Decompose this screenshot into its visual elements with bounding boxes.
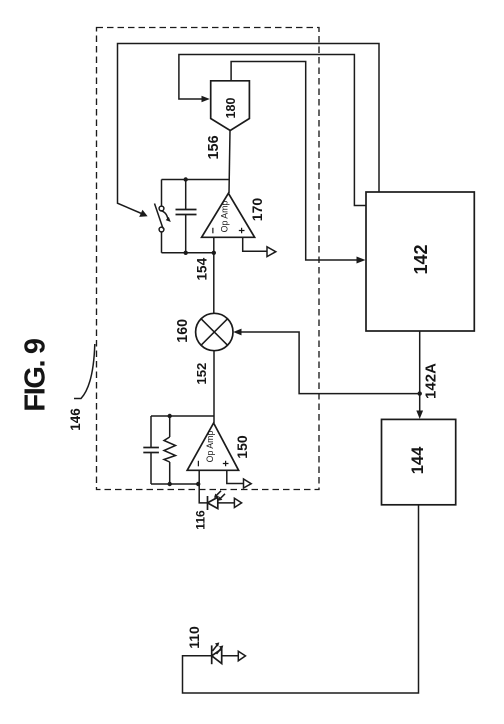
node 154 wire (mixer to op-amp 170 inverting input) [194,237,214,313]
feedback bottom rail op-amp 170 [162,252,214,254]
junction [184,251,188,255]
svg-text:110: 110 [186,626,202,649]
capacitor C (op-amp 150 feedback) [143,416,159,484]
feedback top rail op-amp 150 [151,415,214,417]
feedback bottom rail op-amp 150 [151,483,199,485]
junction on 142A line [418,391,422,395]
op-amp U150 triangle [187,423,238,470]
op-amp 150 plus input to reference (open arrow) [227,470,251,488]
wire from 144 bottom to LED 110 [183,505,419,693]
op-amp U170 triangle [202,193,255,237]
label 146 with leader curve [68,344,95,431]
svg-text:Op Amp: Op Amp [205,431,215,463]
svg-text:Op Amp: Op Amp [220,201,230,233]
svg-text:170: 170 [249,198,265,222]
svg-text:+: + [237,227,249,233]
svg-text:152: 152 [194,363,209,385]
svg-text:150: 150 [234,435,250,459]
label 150 [234,435,250,459]
svg-text:−: − [193,460,205,466]
svg-text:146: 146 [68,408,83,431]
wire op-amp 150 inverting input down to photodiode 116 [199,470,207,503]
junction [184,177,188,181]
label 170 [249,198,265,222]
node 156 wire (180 to op-amp 170 output) [206,131,230,194]
LO wire from 142A line into mixer (arrow into mixer) [233,329,420,394]
svg-text:180: 180 [224,98,238,119]
junction [168,414,172,418]
wire from 142 left edge into 180 left (arrow into 180) [179,55,366,206]
block 180 (pentagon) [211,81,250,131]
svg-text:142: 142 [411,244,431,274]
svg-text:FIG. 9: FIG. 9 [20,338,52,411]
node 152 wire (mixer to op-amp 150 output) [194,351,214,423]
mixer 160 (circle with X) [175,313,233,350]
wire from 180 top to block 142 left (with arrowhead into 142) [231,62,365,264]
figure title FIG. 9 [20,338,52,411]
block 144 [382,419,456,504]
svg-text:144: 144 [409,446,427,474]
wire 142A (142 bottom to 144 top, arrow into 144) [416,331,439,419]
control wire from 142 top to reset switch (arrow at switch) [118,44,380,217]
resistor R (op-amp 150 feedback) [164,416,176,484]
svg-text:154: 154 [194,257,209,280]
reset switch S (with circles and blade) [155,180,171,253]
svg-text:+: + [221,460,233,466]
block 142 [366,192,474,331]
junction [212,251,216,255]
svg-text:160: 160 [175,319,191,343]
photodiode 116 [193,491,241,530]
svg-text:156: 156 [206,135,222,159]
svg-text:142A: 142A [422,363,439,399]
capacitor C (op-amp 170 feedback) [176,180,197,253]
dashed enclosure box 146 [97,28,320,490]
svg-text:−: − [208,227,220,233]
op-amp 170 plus input to reference (open arrow) [243,237,276,256]
feedback top rail op-amp 170 [162,179,230,181]
junction [168,482,172,486]
LED 110 [186,626,245,664]
svg-text:116: 116 [193,510,207,530]
junction [196,482,200,486]
